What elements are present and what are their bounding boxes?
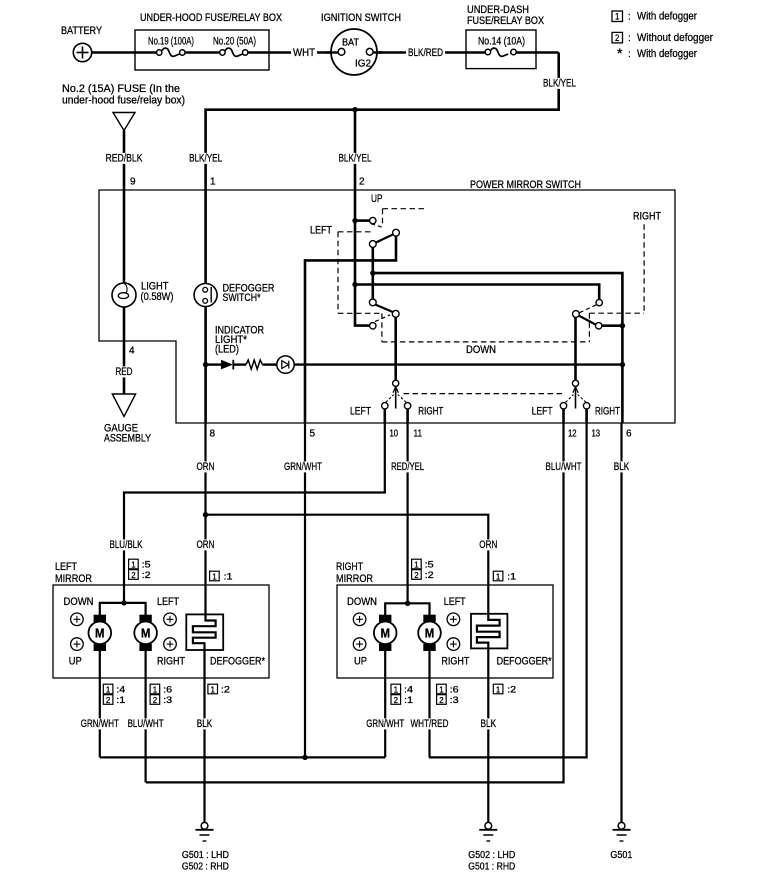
polarity mark up-down + bbox=[71, 613, 84, 626]
contact throw E bbox=[392, 310, 399, 317]
wire E down to left selector bbox=[394, 317, 397, 380]
svg-text:BLK/RED: BLK/RED bbox=[408, 47, 443, 59]
svg-text:RED: RED bbox=[116, 366, 133, 378]
connector tag 2:2 (left mirror motors) bbox=[129, 570, 151, 580]
svg-text:G502 : LHD: G502 : LHD bbox=[468, 850, 515, 861]
indicator LED bbox=[277, 356, 294, 373]
fuse No.19 (100A) bbox=[157, 48, 186, 56]
resistor R1 bbox=[246, 360, 262, 369]
svg-text::4: :4 bbox=[116, 684, 125, 694]
left selector RIGHT contact bbox=[404, 403, 410, 409]
wire to indicator diode bbox=[206, 363, 221, 365]
svg-text:under-hood fuse/relay box): under-hood fuse/relay box) bbox=[62, 95, 185, 107]
ignition switch bbox=[325, 29, 383, 75]
svg-text::2: :2 bbox=[142, 570, 151, 580]
svg-text:POWER MIRROR SWITCH: POWER MIRROR SWITCH bbox=[470, 179, 581, 191]
svg-text::6: :6 bbox=[450, 684, 459, 694]
svg-text:LEFT: LEFT bbox=[310, 225, 332, 237]
contact right lower I bbox=[596, 323, 602, 329]
svg-text:5: 5 bbox=[310, 428, 316, 439]
svg-text:1: 1 bbox=[394, 684, 399, 694]
svg-text:(LED): (LED) bbox=[215, 344, 239, 356]
svg-text::1: :1 bbox=[507, 571, 516, 581]
left selector top contact bbox=[393, 380, 399, 386]
connector tag 1:4 (right motor1) bbox=[391, 684, 413, 694]
junction BLU/BLK at bus bbox=[121, 600, 126, 605]
svg-text:*: * bbox=[617, 45, 623, 61]
svg-text:ORN: ORN bbox=[197, 539, 215, 551]
svg-text:DEFOGGER*: DEFOGGER* bbox=[210, 656, 266, 668]
label ORN (pin 8) bbox=[195, 461, 217, 472]
junction indicator light branch bbox=[203, 362, 208, 367]
svg-text:BLK/YEL: BLK/YEL bbox=[339, 153, 372, 165]
under-dash fuse/relay box bbox=[466, 30, 536, 69]
label BLU/WHT (left) bbox=[126, 718, 166, 729]
junction horizontal-1 bbox=[370, 270, 375, 275]
svg-text:10: 10 bbox=[390, 428, 399, 439]
motor M left-right (left mirror) bbox=[134, 615, 157, 651]
svg-text::: : bbox=[628, 33, 631, 44]
wire battery to under-hood fuse box bbox=[92, 51, 157, 53]
wire ORN branch to right mirror defogger bbox=[206, 515, 500, 823]
svg-text:1: 1 bbox=[414, 559, 419, 569]
legend entry 1 With defogger bbox=[612, 11, 697, 23]
switch arm left-up (pivot to throw) bbox=[375, 234, 393, 242]
svg-text::4: :4 bbox=[404, 684, 413, 694]
junction LED line at pin-6 vertical bbox=[620, 362, 625, 367]
svg-text::2: :2 bbox=[425, 570, 434, 580]
svg-text:DOWN: DOWN bbox=[64, 596, 94, 608]
svg-text::1: :1 bbox=[404, 695, 413, 705]
svg-text:1: 1 bbox=[210, 176, 216, 187]
wire GRN/WHT net bbox=[100, 756, 385, 758]
svg-text::2: :2 bbox=[221, 684, 230, 694]
svg-text:RIGHT: RIGHT bbox=[418, 406, 443, 418]
svg-text:RIGHT: RIGHT bbox=[633, 211, 661, 223]
svg-text:DOWN: DOWN bbox=[347, 596, 377, 608]
contact throw C bbox=[393, 229, 400, 236]
svg-text:ORN: ORN bbox=[479, 539, 497, 551]
svg-text:1: 1 bbox=[153, 684, 158, 694]
label ORN (right mirror) bbox=[477, 539, 499, 550]
svg-text:GRN/WHT: GRN/WHT bbox=[366, 718, 404, 730]
svg-text:UP: UP bbox=[371, 193, 383, 205]
svg-text:M: M bbox=[380, 626, 390, 640]
legend entry * With defogger bbox=[617, 45, 697, 61]
svg-text:GRN/WHT: GRN/WHT bbox=[81, 718, 119, 730]
right mirror box bbox=[337, 585, 553, 678]
wire I to pin-6 vertical bbox=[602, 324, 623, 327]
svg-text:BLU/BLK: BLU/BLK bbox=[110, 539, 143, 551]
switch arm left-down bbox=[376, 305, 394, 313]
label RED/BLK bbox=[104, 153, 145, 164]
defogger element box (right) bbox=[471, 614, 507, 649]
svg-text::5: :5 bbox=[142, 559, 151, 569]
label WHT bbox=[291, 47, 317, 58]
label GRN/WHT (left) bbox=[79, 718, 121, 729]
svg-text:IG2: IG2 bbox=[355, 59, 371, 70]
svg-text:BLK/YEL: BLK/YEL bbox=[543, 78, 576, 90]
svg-text:LEFT: LEFT bbox=[444, 596, 466, 608]
wire pin 10 bbox=[383, 409, 386, 423]
fuse No.2 (15A) triangle symbol bbox=[113, 113, 135, 131]
junction GRN/WHT net bbox=[302, 755, 307, 760]
junction RED/YEL at bus bbox=[405, 601, 410, 606]
connector tag 1:5 (left mirror motors) bbox=[129, 559, 151, 569]
right selector RIGHT contact bbox=[583, 403, 589, 409]
svg-text:ASSEMBLY: ASSEMBLY bbox=[104, 433, 152, 445]
svg-text:BATTERY: BATTERY bbox=[61, 25, 103, 37]
legend entry 2 Without defogger bbox=[612, 32, 713, 44]
connector tag 2:3 (left motor2) bbox=[150, 695, 172, 705]
wire left mirror motor2 down bbox=[145, 651, 147, 782]
svg-text:BLK: BLK bbox=[197, 718, 213, 730]
polarity mark left-right + bbox=[164, 613, 177, 626]
svg-text:2: 2 bbox=[106, 695, 111, 705]
svg-text:BAT: BAT bbox=[342, 38, 359, 49]
svg-text:1: 1 bbox=[106, 684, 111, 694]
svg-text:MIRROR: MIRROR bbox=[55, 573, 92, 585]
svg-text::: : bbox=[628, 49, 631, 60]
ground G501/G502 left bbox=[196, 822, 214, 841]
wire pin 13 bbox=[585, 409, 588, 423]
power mirror switch box bbox=[99, 190, 675, 423]
svg-text:2: 2 bbox=[394, 695, 399, 705]
wire from C to pin 5 bbox=[305, 236, 396, 423]
svg-text:With defogger: With defogger bbox=[637, 11, 697, 23]
polarity mark up-down + (lower) bbox=[71, 638, 84, 651]
dashed linkage UP bbox=[371, 209, 426, 228]
svg-text::2: :2 bbox=[507, 684, 516, 694]
svg-text:4: 4 bbox=[129, 346, 135, 357]
svg-text:RIGHT: RIGHT bbox=[157, 656, 185, 668]
fuse No.14 (10A) bbox=[485, 48, 559, 56]
label WHT/RED (right) bbox=[409, 718, 451, 729]
connector tag 1:1 (left mirror defogger) bbox=[210, 571, 233, 581]
connector tag 1:6 (left motor2) bbox=[150, 684, 172, 694]
dashed link near F bbox=[375, 315, 390, 322]
wire pin 13 down bbox=[429, 423, 587, 757]
wire resistor to LED bbox=[262, 363, 277, 365]
connector tag 1:2 (left defogger) bbox=[208, 684, 230, 694]
junction pin-6 vertical bbox=[620, 323, 625, 328]
svg-text:FUSE/RELAY BOX: FUSE/RELAY BOX bbox=[467, 15, 545, 27]
defogger switch S1 bbox=[194, 284, 217, 307]
wire BLU/BLK pin 10 to left mirror motors bbox=[124, 423, 385, 603]
svg-text:RIGHT: RIGHT bbox=[336, 561, 363, 573]
dashed linkage left switch bbox=[338, 232, 382, 342]
motor M left-right (right mirror) bbox=[418, 615, 441, 651]
wire horizontal-2 to right switch upper contact bbox=[355, 285, 599, 300]
svg-text:G501: G501 bbox=[610, 850, 632, 861]
svg-text:LEFT: LEFT bbox=[350, 406, 371, 418]
svg-text:Without defogger: Without defogger bbox=[637, 32, 713, 44]
wire ignition to under-dash box bbox=[377, 51, 488, 53]
svg-text:DOWN: DOWN bbox=[466, 344, 496, 356]
right mirror motor bus bbox=[385, 603, 429, 615]
svg-text:RED/YEL: RED/YEL bbox=[391, 461, 424, 473]
svg-text:BLU/WHT: BLU/WHT bbox=[128, 718, 164, 730]
label BLK/YEL (pin 1) bbox=[187, 153, 224, 164]
svg-text:No.19 (100A): No.19 (100A) bbox=[148, 36, 194, 48]
svg-text:G501 : RHD: G501 : RHD bbox=[468, 862, 515, 872]
svg-text:1: 1 bbox=[615, 12, 619, 22]
svg-text::3: :3 bbox=[163, 695, 172, 705]
junction pin2 bus to up contact bbox=[352, 218, 357, 223]
wire BLU/WHT pin 12 down bbox=[146, 423, 564, 782]
label BLK/RED bbox=[406, 47, 445, 58]
svg-text::6: :6 bbox=[163, 684, 172, 694]
contact right switch upper G bbox=[596, 299, 602, 305]
junction on BLK/YEL at pin 2 branch bbox=[352, 107, 357, 112]
svg-text:WHT/RED: WHT/RED bbox=[411, 718, 449, 730]
label BLK/YEL (right) bbox=[541, 78, 578, 89]
label BLK (right) bbox=[479, 718, 499, 729]
svg-text:BLU/WHT: BLU/WHT bbox=[546, 461, 582, 473]
wire RED/BLK fuse to pin 9 bbox=[123, 131, 126, 342]
svg-text::3: :3 bbox=[450, 695, 459, 705]
svg-text:6: 6 bbox=[626, 428, 632, 439]
under-hood fuse/relay box bbox=[135, 30, 269, 70]
svg-text::: : bbox=[628, 12, 631, 23]
wire GRN/WHT pin 5 down bbox=[304, 423, 306, 757]
svg-text:No.2 (15A) FUSE (In the: No.2 (15A) FUSE (In the bbox=[62, 83, 180, 95]
connector tag 2:2 (right mirror motors) bbox=[412, 570, 434, 580]
svg-text:2: 2 bbox=[359, 176, 365, 187]
motor M up-down (right mirror) bbox=[374, 615, 397, 651]
ground G501 right bbox=[613, 822, 631, 841]
svg-text:MIRROR: MIRROR bbox=[336, 573, 373, 585]
wire RED/YEL pin 11 to right mirror motors bbox=[407, 423, 409, 603]
svg-text:RIGHT: RIGHT bbox=[441, 656, 469, 668]
label BLK (pin 6) bbox=[612, 461, 632, 472]
left selector LEFT contact bbox=[382, 403, 388, 409]
svg-text:2: 2 bbox=[131, 570, 136, 580]
connector tag 1:2 (right defogger) bbox=[493, 684, 516, 694]
svg-text:1: 1 bbox=[439, 684, 444, 694]
polarity mark + (right mirror ud lower) bbox=[353, 638, 366, 651]
svg-text:RED/BLK: RED/BLK bbox=[106, 153, 144, 165]
connector tag 2:1 (left motor1) bbox=[103, 695, 125, 705]
wire BLK/YEL from under-dash box down and left to pin 1 bbox=[206, 53, 559, 424]
polarity mark left-right + (lower) bbox=[164, 638, 177, 651]
svg-text:11: 11 bbox=[414, 428, 423, 439]
svg-text:G502 : RHD: G502 : RHD bbox=[182, 862, 229, 872]
svg-text:ORN: ORN bbox=[197, 461, 215, 473]
fuse No.20 (50A) bbox=[220, 48, 248, 56]
svg-text:1: 1 bbox=[496, 684, 501, 694]
motor M up-down (left mirror) bbox=[89, 615, 112, 651]
svg-text:LEFT: LEFT bbox=[532, 406, 553, 418]
wire ORN pin 8 to left mirror defogger bbox=[193, 423, 216, 822]
svg-text:M: M bbox=[95, 626, 105, 640]
polarity mark + (right mirror lr) bbox=[447, 613, 460, 626]
wire H down to right selector bbox=[574, 317, 577, 380]
wire RED to gauge arrow bbox=[123, 341, 126, 394]
contact up-left A bbox=[370, 217, 376, 223]
contact down-left F bbox=[370, 323, 376, 329]
ground G502/G501 middle bbox=[479, 822, 497, 841]
svg-text:2: 2 bbox=[153, 695, 158, 705]
svg-text:1: 1 bbox=[131, 559, 136, 569]
lamp LIGHT (0.58W) bbox=[112, 283, 136, 307]
svg-text:UP: UP bbox=[354, 656, 367, 668]
right selector top contact bbox=[572, 380, 578, 386]
label RED bbox=[114, 366, 135, 377]
contact down-left D bbox=[369, 299, 376, 306]
connector tag 1:4 (left motor1) bbox=[103, 684, 125, 694]
label RED/YEL bbox=[389, 461, 426, 472]
polarity mark + (right mirror ud) bbox=[353, 613, 366, 626]
label BLK/YEL (pin 2) bbox=[337, 153, 374, 164]
wire between fuses No.19 and No.20 bbox=[185, 51, 221, 53]
dashed link H to G bbox=[580, 304, 598, 312]
defogger element box (left) bbox=[186, 614, 223, 650]
label GRN/WHT (pin 5) bbox=[282, 461, 324, 472]
svg-text:RIGHT: RIGHT bbox=[595, 406, 620, 418]
svg-text:WHT: WHT bbox=[293, 47, 315, 59]
left mirror motor bus bbox=[100, 603, 146, 615]
wire horizontal-1 to right switch vertical / pin 6 bbox=[373, 273, 623, 423]
svg-text:UNDER-HOOD FUSE/RELAY BOX: UNDER-HOOD FUSE/RELAY BOX bbox=[140, 12, 283, 24]
svg-text:No.14 (10A): No.14 (10A) bbox=[478, 36, 525, 48]
wire right mirror motor1 down bbox=[384, 651, 386, 757]
svg-text:8: 8 bbox=[210, 428, 216, 439]
svg-text::5: :5 bbox=[425, 559, 434, 569]
switch arm right bbox=[579, 316, 596, 325]
wire left mirror motor1 down bbox=[99, 651, 101, 757]
contact right pivot H bbox=[573, 311, 580, 318]
label GRN/WHT (right) bbox=[364, 718, 406, 729]
svg-text:BLK/YEL: BLK/YEL bbox=[189, 153, 222, 165]
svg-text:SWITCH*: SWITCH* bbox=[223, 292, 262, 304]
svg-text:2: 2 bbox=[414, 570, 419, 580]
svg-text::1: :1 bbox=[116, 695, 125, 705]
connector tag 2:3 (right motor2) bbox=[437, 695, 459, 705]
wire pin 12 bbox=[562, 409, 565, 423]
polarity mark + (right mirror lr lower) bbox=[447, 638, 460, 651]
svg-text:BLK: BLK bbox=[614, 461, 630, 473]
svg-text:1: 1 bbox=[212, 571, 217, 581]
diode D1 bbox=[221, 360, 233, 370]
svg-text:LEFT: LEFT bbox=[157, 596, 179, 608]
junction ORN branch bbox=[203, 512, 208, 517]
wire to up contact bbox=[355, 219, 369, 222]
gauge assembly arrow bbox=[112, 394, 135, 417]
connector tag 1:6 (right motor2) bbox=[437, 684, 459, 694]
junction pin2 bus horizontal-2 bbox=[352, 282, 357, 287]
svg-text:9: 9 bbox=[130, 176, 136, 187]
svg-text:2: 2 bbox=[615, 33, 619, 43]
connector tag 1:5 (right mirror motors) bbox=[412, 559, 434, 569]
label ORN (left mirror) bbox=[195, 539, 217, 550]
wire pin 2 bus down into switch bbox=[355, 110, 369, 326]
svg-text:M: M bbox=[141, 626, 151, 640]
connector tag 2:1 (right motor1) bbox=[391, 695, 413, 705]
connector tag 1:1 (right mirror defogger) bbox=[493, 571, 516, 581]
svg-text:12: 12 bbox=[568, 428, 577, 439]
label BLU/BLK bbox=[108, 539, 145, 550]
svg-text:With defogger: With defogger bbox=[637, 48, 697, 60]
svg-text:2: 2 bbox=[439, 695, 444, 705]
label BLU/WHT (pin 12) bbox=[544, 461, 584, 472]
svg-text::1: :1 bbox=[224, 571, 233, 581]
right selector LEFT contact bbox=[560, 403, 566, 409]
left selector arrow bbox=[386, 387, 406, 409]
battery B1 bbox=[73, 43, 91, 61]
svg-text:IGNITION SWITCH: IGNITION SWITCH bbox=[321, 12, 401, 24]
wire pin 11 bbox=[406, 409, 409, 423]
dashed linkage DOWN to right switch bbox=[382, 224, 644, 342]
svg-text:1: 1 bbox=[496, 571, 501, 581]
right selector arrow bbox=[566, 387, 586, 409]
wire under-hood box to ignition switch bbox=[248, 51, 342, 53]
svg-text:GRN/WHT: GRN/WHT bbox=[284, 461, 322, 473]
svg-text:BLK: BLK bbox=[481, 718, 497, 730]
svg-text:LEFT: LEFT bbox=[55, 561, 77, 573]
svg-text:G501 : LHD: G501 : LHD bbox=[182, 850, 229, 861]
svg-text:No.20 (50A): No.20 (50A) bbox=[213, 36, 256, 48]
wire right mirror motor2 down bbox=[428, 651, 430, 757]
wire diode to resistor bbox=[233, 363, 246, 365]
contact pivot B bbox=[369, 241, 376, 248]
svg-text:(0.58W): (0.58W) bbox=[141, 291, 174, 303]
svg-text:UP: UP bbox=[69, 656, 82, 668]
svg-text:DEFOGGER*: DEFOGGER* bbox=[497, 656, 553, 668]
svg-text:1: 1 bbox=[211, 684, 216, 694]
left mirror box bbox=[53, 585, 269, 678]
label BLK (left) bbox=[195, 718, 215, 729]
svg-text:M: M bbox=[425, 626, 435, 640]
dashed selector linkage bbox=[404, 393, 563, 395]
wire BLK pin 6 to ground bbox=[620, 423, 622, 822]
wire LED to pin-6 vertical bbox=[294, 363, 622, 365]
wire from B down to D bbox=[371, 248, 374, 300]
svg-text:13: 13 bbox=[592, 428, 601, 439]
